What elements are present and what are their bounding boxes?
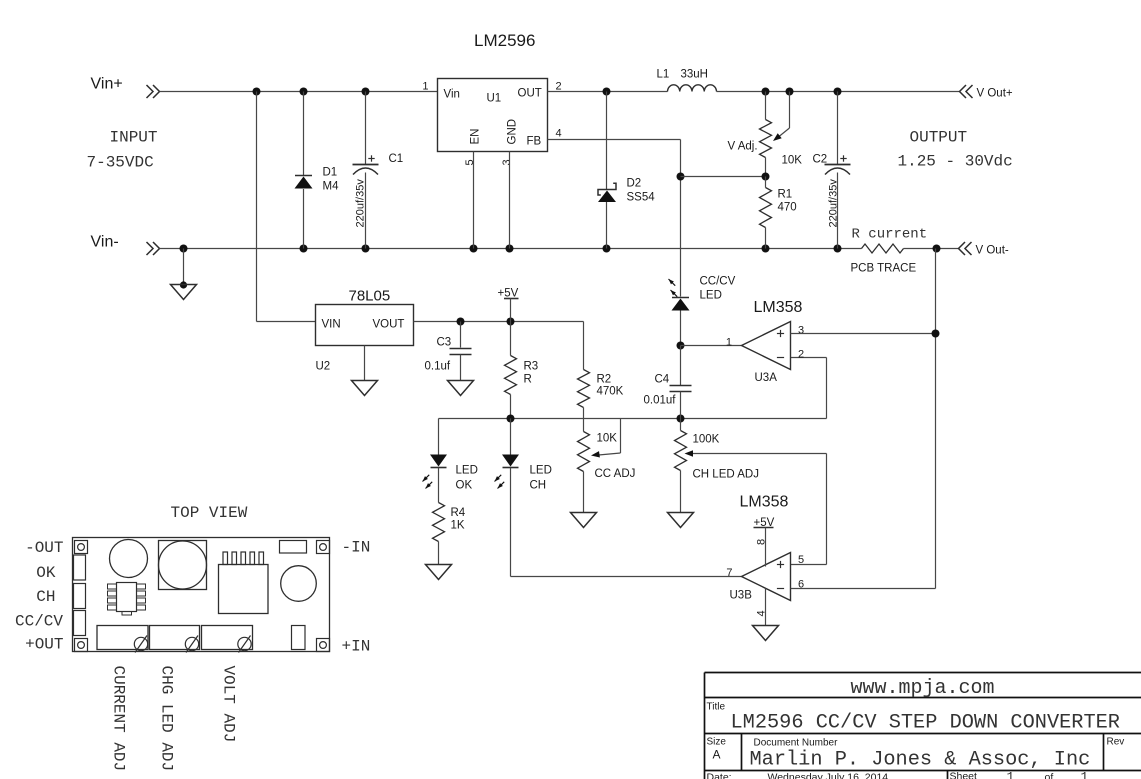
svg-text:CC ADJ: CC ADJ xyxy=(595,468,636,480)
svg-text:OK: OK xyxy=(36,564,56,582)
svg-text:33uH: 33uH xyxy=(681,69,709,81)
svg-text:M4: M4 xyxy=(323,181,340,193)
svg-text:CC/CV: CC/CV xyxy=(15,613,63,631)
svg-text:1: 1 xyxy=(1007,770,1015,779)
svg-text:1.25 - 30Vdc: 1.25 - 30Vdc xyxy=(898,153,1013,171)
svg-text:LED: LED xyxy=(700,290,722,302)
svg-text:R current: R current xyxy=(852,227,928,243)
svg-text:10K: 10K xyxy=(782,155,803,167)
svg-text:V Adj.: V Adj. xyxy=(728,141,758,153)
svg-text:INPUT: INPUT xyxy=(110,129,158,147)
svg-text:1: 1 xyxy=(1081,770,1089,779)
svg-text:1: 1 xyxy=(726,337,732,349)
svg-text:Date:: Date: xyxy=(707,772,732,779)
svg-text:1: 1 xyxy=(422,81,428,93)
svg-text:3: 3 xyxy=(798,325,804,337)
svg-text:L1: L1 xyxy=(657,69,670,81)
svg-text:Vin+: Vin+ xyxy=(91,76,123,93)
svg-text:Rev: Rev xyxy=(1107,737,1125,748)
svg-text:4: 4 xyxy=(556,128,562,140)
svg-text:220uf/35v: 220uf/35v xyxy=(355,179,367,228)
svg-text:V Out-: V Out- xyxy=(976,245,1009,257)
svg-text:Size: Size xyxy=(707,737,727,748)
svg-text:LM358: LM358 xyxy=(740,494,789,511)
svg-text:C2: C2 xyxy=(813,154,828,166)
svg-text:R1: R1 xyxy=(778,189,793,201)
svg-text:3: 3 xyxy=(501,159,513,165)
svg-text:LED: LED xyxy=(456,465,478,477)
svg-text:LM358: LM358 xyxy=(754,299,803,316)
svg-text:R: R xyxy=(524,374,532,386)
svg-text:LM2596 CC/CV STEP DOWN CONVERT: LM2596 CC/CV STEP DOWN CONVERTER xyxy=(731,712,1120,735)
svg-text:LED: LED xyxy=(530,465,552,477)
svg-text:Wednesday July 16, 2014: Wednesday July 16, 2014 xyxy=(768,772,889,779)
svg-text:100K: 100K xyxy=(693,434,720,446)
svg-text:1K: 1K xyxy=(451,520,465,532)
svg-text:7-35VDC: 7-35VDC xyxy=(87,154,154,172)
svg-text:PCB TRACE: PCB TRACE xyxy=(851,263,917,275)
svg-text:U3A: U3A xyxy=(755,372,778,384)
svg-text:CC/CV: CC/CV xyxy=(700,276,736,288)
svg-text:V Out+: V Out+ xyxy=(977,88,1013,100)
svg-text:Vin-: Vin- xyxy=(91,234,119,251)
svg-text:-OUT: -OUT xyxy=(25,539,63,557)
svg-text:CHG LED ADJ: CHG LED ADJ xyxy=(158,666,176,772)
svg-text:470K: 470K xyxy=(597,386,624,398)
svg-text:R2: R2 xyxy=(597,374,612,386)
svg-text:VOLT ADJ: VOLT ADJ xyxy=(220,666,238,743)
svg-text:OUTPUT: OUTPUT xyxy=(910,129,968,147)
svg-text:VIN: VIN xyxy=(322,319,341,331)
svg-text:U1: U1 xyxy=(487,93,502,105)
svg-text:+IN: +IN xyxy=(342,638,371,656)
svg-text:GND: GND xyxy=(507,119,519,145)
svg-text:C1: C1 xyxy=(389,153,404,165)
svg-text:C4: C4 xyxy=(655,374,670,386)
svg-text:C3: C3 xyxy=(437,337,452,349)
svg-text:4: 4 xyxy=(756,610,768,616)
svg-text:220uf/35v: 220uf/35v xyxy=(828,179,840,228)
svg-text:8: 8 xyxy=(756,539,768,545)
svg-text:2: 2 xyxy=(556,81,562,93)
svg-text:78L05: 78L05 xyxy=(349,288,391,305)
svg-text:VOUT: VOUT xyxy=(373,319,405,331)
svg-text:5: 5 xyxy=(464,159,476,165)
svg-text:Marlin P. Jones & Assoc, Inc: Marlin P. Jones & Assoc, Inc xyxy=(750,749,1091,772)
svg-text:5: 5 xyxy=(798,554,804,566)
svg-text:7: 7 xyxy=(726,567,732,579)
svg-text:+OUT: +OUT xyxy=(25,636,63,654)
svg-text:OK: OK xyxy=(456,480,473,492)
svg-text:-IN: -IN xyxy=(342,539,371,557)
svg-text:R3: R3 xyxy=(524,361,539,373)
svg-text:Vin: Vin xyxy=(444,89,460,101)
svg-text:A: A xyxy=(713,748,721,762)
svg-text:CH: CH xyxy=(36,588,55,606)
svg-text:TOP VIEW: TOP VIEW xyxy=(171,504,248,522)
svg-text:D2: D2 xyxy=(627,178,642,190)
svg-text:2: 2 xyxy=(798,349,804,361)
svg-text:LM2596: LM2596 xyxy=(474,31,535,50)
svg-text:U2: U2 xyxy=(316,361,331,373)
svg-text:Sheet: Sheet xyxy=(950,771,978,779)
svg-text:CH: CH xyxy=(530,480,547,492)
svg-text:0.01uf: 0.01uf xyxy=(644,395,677,407)
svg-text:EN: EN xyxy=(470,129,482,145)
svg-text:U3B: U3B xyxy=(730,590,753,602)
svg-text:www.mpja.com: www.mpja.com xyxy=(851,677,995,700)
svg-text:Title: Title xyxy=(707,702,726,713)
svg-text:FB: FB xyxy=(527,136,542,148)
svg-text:0.1uf: 0.1uf xyxy=(425,361,451,373)
svg-text:CH LED ADJ: CH LED ADJ xyxy=(693,469,759,481)
svg-text:OUT: OUT xyxy=(518,88,542,100)
svg-text:of: of xyxy=(1045,772,1054,779)
svg-text:R4: R4 xyxy=(451,507,466,519)
svg-text:10K: 10K xyxy=(597,433,618,445)
svg-text:CURRENT ADJ: CURRENT ADJ xyxy=(110,666,128,772)
svg-text:SS54: SS54 xyxy=(627,192,656,204)
svg-text:D1: D1 xyxy=(323,167,338,179)
svg-text:470: 470 xyxy=(778,202,797,214)
svg-text:Document Number: Document Number xyxy=(754,738,839,749)
